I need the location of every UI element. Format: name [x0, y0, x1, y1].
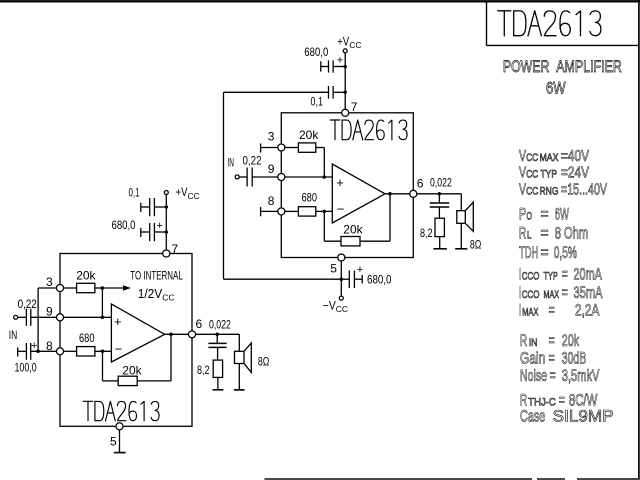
capacitor C2 680,0 (U1 supply) plates — [141, 223, 167, 241]
pin 7 circle (U2) — [342, 109, 349, 116]
junction dot -input (U1) — [101, 350, 105, 354]
pin 5 circle (U1) — [116, 423, 123, 430]
svg-text:20k: 20k — [343, 222, 363, 236]
junction dot pin3 net to pin8 row (U1) — [36, 350, 40, 354]
IC U1 TDA2613 box — [60, 254, 192, 427]
resistor R4 8,2 (U1 zobel) — [213, 360, 224, 390]
pin 9 circle (U2) — [278, 173, 285, 180]
frame bottom border segment 1 — [265, 478, 533, 480]
svg-text:+: + — [31, 340, 37, 352]
svg-text:POWERAMPLIFIER: POWERAMPLIFIER — [503, 58, 622, 76]
wire pin 9 to +input (U1) — [63, 316, 111, 318]
wire +Vcc to pin 7 (U1) — [165, 195, 167, 254]
svg-text:−: − — [115, 342, 123, 357]
resistor R5 20k (U2 pin3) — [285, 143, 325, 177]
resistor R8 8,2 (U2 zobel) — [433, 218, 447, 249]
svg-text:TO INTERNAL: TO INTERNAL — [130, 268, 183, 282]
junction dot -input (U2) — [323, 210, 327, 214]
capacitor C4 100,0 (U1 input bias) — [18, 343, 57, 360]
junction dot 20k to arrow (U1) — [101, 286, 105, 290]
svg-text:+: + — [157, 220, 163, 232]
wire +Vcc to pin 7 (U2) — [344, 53, 346, 113]
capacitor C10 0,022 (U2 zobel) — [430, 194, 449, 218]
svg-text:6: 6 — [196, 317, 203, 331]
svg-text:−: − — [337, 202, 345, 217]
svg-text:6: 6 — [417, 177, 424, 191]
capacitor C5 0,022 (U1 zobel) — [208, 334, 226, 360]
svg-text:680,0: 680,0 — [112, 218, 136, 232]
op-amp U2 triangle — [332, 164, 385, 223]
pin 8 circle (U1) — [56, 348, 63, 355]
svg-text:20k: 20k — [76, 269, 96, 283]
svg-text:7: 7 — [351, 100, 358, 114]
pin 6 circle (U2) — [410, 190, 417, 197]
svg-text:+: + — [114, 314, 122, 329]
pin 3 circle (U1) — [56, 284, 63, 291]
input capacitor C3 0,22 (U1) — [18, 309, 57, 326]
pin 3 circle (U2) — [278, 144, 285, 151]
wire outer loop to -Vcc (U2) — [224, 92, 342, 279]
svg-text:100,0: 100,0 — [15, 361, 37, 375]
svg-text:20k: 20k — [122, 363, 142, 377]
svg-text:7: 7 — [172, 242, 179, 256]
feedback resistor R3 20k (U1) — [103, 334, 172, 385]
frame right border — [638, 0, 640, 480]
junction dot output/feedback (U2) — [388, 192, 392, 196]
svg-text:IN: IN — [9, 328, 17, 342]
IC U1 label TDA2613 (stroke glyphs) — [83, 401, 159, 421]
svg-text:8Ω: 8Ω — [258, 354, 270, 368]
pin 6 circle (U1) — [188, 331, 195, 338]
junction dot output/feedback (U1) — [169, 333, 173, 337]
svg-text:0,1: 0,1 — [311, 95, 324, 109]
IC U2 label TDA2613 (stroke glyphs) — [330, 120, 407, 140]
junction dot -Vcc node (U2) — [340, 277, 344, 281]
junction dot zobel node (U1) — [215, 333, 219, 337]
svg-text:3: 3 — [268, 129, 275, 143]
svg-text:680,0: 680,0 — [304, 45, 328, 59]
svg-text:9: 9 — [46, 305, 53, 319]
pin 8 circle (U2) — [278, 208, 285, 215]
arrow to internal 1/2Vcc (U1) — [102, 287, 124, 289]
IC U2 TDA2613 box — [281, 113, 413, 258]
svg-text:0,22: 0,22 — [243, 154, 262, 168]
wire op-amp output to pin 6 (U1) — [165, 333, 189, 335]
junction dot 0,1 cap to Vcc (U1) — [165, 205, 169, 209]
wire op-amp output to pin 6 (U2) — [385, 193, 410, 195]
svg-text:IN: IN — [228, 156, 235, 170]
resistor R2 680 (U1 pin8) — [63, 347, 111, 356]
capacitor C6 680,0 (U2 supply) — [321, 60, 345, 72]
wire pin 5 to ground (U1) — [114, 430, 126, 453]
junction dot 0,1 to Vcc (U2) — [343, 91, 347, 95]
title box left edge — [486, 2, 488, 45]
resistor R1 20k (U1 pin3) — [63, 283, 102, 292]
pin 7 circle (U1) — [163, 250, 170, 257]
svg-text:0,022: 0,022 — [430, 176, 452, 190]
svg-text:8,2: 8,2 — [420, 226, 433, 240]
junction dot +input (U1) — [101, 316, 105, 320]
svg-text:0,22: 0,22 — [18, 297, 37, 311]
op-amp U1 triangle — [111, 304, 164, 362]
svg-text:8: 8 — [46, 339, 53, 353]
svg-text:Gain=30dB: Gain=30dB — [520, 349, 586, 368]
svg-text:0,022: 0,022 — [209, 318, 231, 332]
svg-text:8Ω: 8Ω — [470, 238, 482, 252]
svg-text:680,0: 680,0 — [367, 272, 392, 286]
svg-text:CaseSIL9MP: CaseSIL9MP — [520, 407, 614, 426]
capacitor C1 0,1 (U1 supply) plates — [141, 198, 167, 216]
wire pin 6 to output node (U2) — [417, 193, 462, 195]
wire pin 3 net (U1) — [38, 288, 57, 351]
svg-text:680: 680 — [79, 331, 95, 345]
svg-text:+: + — [337, 55, 343, 67]
svg-text:+: + — [336, 175, 344, 190]
wire pin 3 stub (U2) — [261, 144, 278, 153]
svg-text:5: 5 — [110, 435, 117, 449]
speaker LS2 8 ohm (U2) — [455, 194, 473, 249]
wire pin 6 to output node (U1) — [195, 333, 239, 335]
svg-text:TDH=0,5%: TDH=0,5% — [519, 243, 577, 262]
frame bottom border segment 3 — [577, 478, 640, 480]
junction dot 20k to +input (U2) — [323, 175, 327, 179]
terminal IN (U2) — [235, 175, 239, 179]
input capacitor C9 0,22 (U2) — [239, 168, 278, 187]
capacitor C8 680,0 (U2 -Vcc bypass) — [341, 271, 362, 289]
svg-text:6W: 6W — [546, 80, 566, 98]
wire pin 9 to +input (U2) — [285, 176, 333, 178]
arrowhead to internal (U1) — [123, 285, 131, 291]
pin 5 circle (U2) — [338, 254, 345, 261]
title text TDA2613 (stroke glyphs) — [498, 11, 601, 36]
wire 20k junction to +input (U1) — [101, 288, 103, 317]
speaker LS1 8 ohm (U1) — [234, 334, 251, 390]
svg-text:8: 8 — [268, 194, 275, 208]
svg-text:680: 680 — [302, 191, 318, 205]
wire pin 8 stub (U2) — [261, 207, 278, 216]
svg-text:0,1: 0,1 — [129, 186, 140, 200]
svg-text:+: + — [357, 264, 363, 276]
terminal +Vcc (U1) — [164, 191, 168, 195]
junction dot 680,0 to Vcc (U2) — [343, 65, 347, 69]
terminal IN (U1) — [14, 315, 18, 319]
capacitor C7 0,1 (U2 supply) — [224, 86, 346, 99]
frame top border — [0, 0, 640, 2]
svg-text:3: 3 — [46, 275, 53, 289]
junction dot zobel node (U2) — [438, 192, 442, 196]
svg-text:20k: 20k — [299, 128, 319, 142]
svg-text:8,2: 8,2 — [197, 363, 210, 377]
wire pin 5 to -Vcc terminal (U2) — [340, 261, 342, 296]
title box bottom edge — [487, 44, 640, 46]
terminal -Vcc (U2) — [339, 296, 343, 300]
feedback resistor R7 20k (U2) — [324, 194, 390, 246]
frame bottom border segment 2 — [537, 478, 565, 480]
terminal +Vcc (U2) — [343, 49, 347, 53]
svg-text:9: 9 — [268, 162, 275, 176]
svg-text:5: 5 — [330, 262, 337, 276]
pin 9 circle (U1) — [56, 314, 63, 321]
junction dot 680,0 cap to Vcc (U1) — [165, 230, 169, 234]
resistor R6 680 (U2 pin8) — [285, 207, 333, 216]
